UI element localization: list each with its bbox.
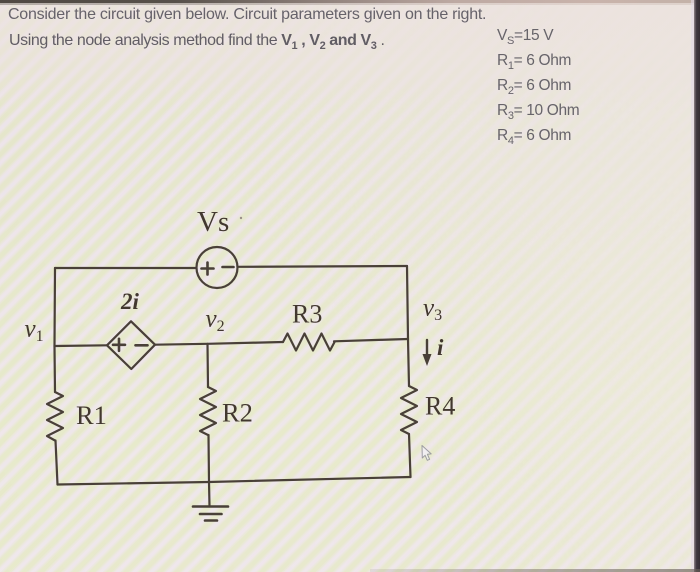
polarity minus of 2i source bbox=[136, 344, 148, 347]
svg-text:R2: R2 bbox=[222, 398, 253, 428]
current arrow i bbox=[426, 340, 428, 357]
wire R2 branch lower bbox=[207, 435, 210, 482]
wire R2 branch upper bbox=[206, 344, 209, 387]
wire left rail upper bbox=[53, 268, 56, 346]
wire top-right segment bbox=[238, 265, 408, 268]
voltage source Vs bbox=[197, 247, 238, 288]
mouse cursor bbox=[422, 446, 431, 461]
wire middle-right segment bbox=[334, 339, 408, 341]
svg-text:R4: R4 bbox=[425, 392, 455, 421]
wire right rail lower bbox=[409, 434, 411, 477]
wire left rail middle bbox=[53, 346, 56, 392]
svg-text:i: i bbox=[437, 335, 444, 360]
wire right rail middle bbox=[408, 339, 409, 386]
polarity minus of Vs bbox=[223, 266, 234, 269]
wire middle-center segment bbox=[155, 342, 283, 345]
svg-text:v2: v2 bbox=[206, 306, 225, 336]
resistor R2 bbox=[200, 387, 216, 435]
dependent source 2i diamond bbox=[107, 321, 155, 369]
resistor R4 bbox=[401, 386, 417, 434]
polarity plus of Vs bbox=[202, 263, 214, 275]
svg-text:v1: v1 bbox=[25, 316, 44, 346]
polarity plus of 2i source bbox=[113, 339, 125, 351]
resistor R1 bbox=[47, 392, 63, 441]
svg-text:Vs: Vs bbox=[197, 206, 229, 238]
wire left rail lower bbox=[56, 441, 58, 485]
ground bbox=[193, 507, 228, 521]
svg-text:R1: R1 bbox=[76, 400, 107, 430]
svg-text:v3: v3 bbox=[423, 295, 442, 325]
wire middle-left segment bbox=[55, 344, 108, 347]
svg-text:R3: R3 bbox=[292, 300, 322, 329]
wire ground stem bbox=[208, 482, 211, 506]
resistor R3 bbox=[283, 334, 335, 351]
wire bottom segment bbox=[58, 477, 411, 485]
wire top-left segment bbox=[55, 267, 196, 269]
wire right rail upper bbox=[407, 266, 408, 339]
svg-text:2i: 2i bbox=[120, 289, 140, 314]
dust speck bbox=[240, 217, 242, 219]
